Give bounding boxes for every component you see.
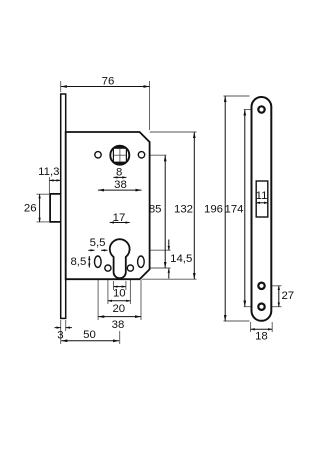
svg-text:38: 38 — [114, 179, 127, 191]
svg-text:14,5: 14,5 — [170, 253, 192, 265]
svg-text:10: 10 — [113, 288, 126, 300]
svg-text:27: 27 — [281, 290, 294, 302]
svg-text:18: 18 — [255, 331, 268, 343]
svg-text:196: 196 — [204, 204, 223, 216]
svg-text:8: 8 — [116, 167, 122, 179]
svg-text:11: 11 — [256, 190, 268, 202]
svg-text:76: 76 — [102, 76, 115, 88]
svg-text:11,3: 11,3 — [38, 166, 59, 178]
svg-text:5,5: 5,5 — [90, 237, 106, 249]
svg-text:20: 20 — [112, 303, 125, 315]
svg-text:3: 3 — [57, 329, 63, 341]
svg-text:38: 38 — [112, 319, 125, 331]
svg-text:174: 174 — [224, 204, 243, 216]
svg-text:26: 26 — [24, 203, 37, 215]
svg-text:85: 85 — [149, 204, 162, 216]
svg-text:50: 50 — [83, 329, 96, 341]
svg-text:17: 17 — [113, 212, 126, 224]
svg-text:132: 132 — [174, 204, 193, 216]
svg-text:8,5: 8,5 — [70, 256, 86, 268]
